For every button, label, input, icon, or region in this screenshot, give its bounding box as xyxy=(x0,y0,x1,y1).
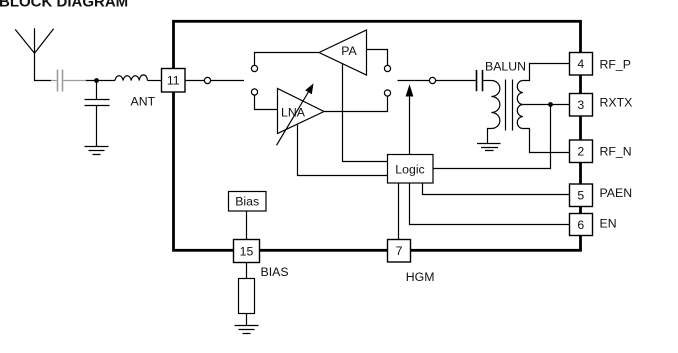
svg-text:Bias: Bias xyxy=(235,195,259,209)
port circle on balun line xyxy=(429,77,435,83)
resistor R1 xyxy=(239,279,255,314)
op-amp PA (power amplifier, points left) xyxy=(319,30,367,75)
pin 4 RF_P xyxy=(570,53,593,76)
Bias block U3 xyxy=(229,192,267,212)
transformer T1 secondary winding xyxy=(517,81,523,129)
wire Logic to pin 6 EN xyxy=(410,183,570,225)
svg-text:PAEN: PAEN xyxy=(600,186,633,200)
IC outline frame xyxy=(174,21,581,250)
wire pin 11 to switch pole xyxy=(185,80,244,82)
svg-text:PA: PA xyxy=(341,44,357,58)
switch SW1 throw contact (RX) xyxy=(251,89,257,95)
wire LNA bottom to Logic xyxy=(298,125,388,176)
ground under C2 xyxy=(85,147,109,155)
node A junction dot xyxy=(94,78,99,83)
port circle on ANT line xyxy=(204,77,210,83)
switch SW1 throw contact (TX) xyxy=(251,65,257,71)
capacitor C1 (series, gray) xyxy=(58,70,63,92)
wire SW1 RX contact to LNA input xyxy=(255,95,278,109)
wire SW1 TX contact to PA output xyxy=(255,53,320,66)
transformer T1 primary winding xyxy=(491,81,500,129)
svg-text:6: 6 xyxy=(577,218,584,232)
wire T1 center tap to pin 3 xyxy=(523,104,570,106)
wire Bias to pin 15 xyxy=(246,211,248,239)
svg-text:HGM: HGM xyxy=(406,270,435,284)
wire switch SW2 pole to balun capacitor xyxy=(398,80,476,82)
svg-text:Logic: Logic xyxy=(395,163,424,177)
pin 2 RF_N xyxy=(570,140,593,163)
capacitor C3 (balun series) xyxy=(477,70,483,91)
pin 7 HGM xyxy=(388,240,411,263)
wire R1 to ground xyxy=(246,314,248,326)
pin 6 EN xyxy=(570,214,593,236)
svg-text:RXTX: RXTX xyxy=(600,95,633,109)
wire C3 to T1 primary xyxy=(483,80,491,82)
wire PA input to switch SW2 TX contact xyxy=(367,50,388,66)
wire T1 secondary top to pin 4 xyxy=(523,64,570,81)
pin 3 RXTX xyxy=(570,94,593,117)
ground under R1 xyxy=(235,326,259,334)
Logic block U2 xyxy=(388,155,434,184)
svg-text:3: 3 xyxy=(577,98,584,112)
wire T1 secondary bottom to pin 2 xyxy=(523,129,570,153)
arrow Logic to switch control xyxy=(406,84,414,154)
svg-text:5: 5 xyxy=(577,189,584,203)
svg-text:11: 11 xyxy=(167,74,180,88)
antenna xyxy=(15,28,53,53)
svg-text:2: 2 xyxy=(577,145,584,159)
wire L1 to pin 11 xyxy=(148,80,162,82)
svg-text:RF_N: RF_N xyxy=(600,144,632,158)
pin 15 BIAS xyxy=(234,240,260,263)
wire T1 primary bottom to ground xyxy=(488,129,492,144)
svg-text:4: 4 xyxy=(577,57,584,71)
svg-text:EN: EN xyxy=(600,216,617,230)
wire antenna feed to C1 xyxy=(35,53,52,81)
pin 11 xyxy=(162,69,186,93)
svg-text:RF_P: RF_P xyxy=(600,58,631,72)
wire Logic to RXTX node xyxy=(433,105,551,169)
wire PA bottom to Logic xyxy=(343,63,388,161)
wire node A to L1 xyxy=(86,80,115,82)
op-amp LNA (low noise amplifier, points right) xyxy=(278,89,325,134)
wire LNA output to switch SW2 RX contact xyxy=(324,96,388,111)
pin 5 PAEN xyxy=(570,184,593,207)
svg-text:ANT: ANT xyxy=(131,94,156,108)
transformer T1 core xyxy=(506,80,513,131)
svg-text:BIAS: BIAS xyxy=(261,265,289,279)
RXTX node junction dot xyxy=(548,102,553,107)
LNA variable-gain arrow xyxy=(277,83,314,145)
switch SW2 TX contact xyxy=(384,65,390,71)
inductor L1 xyxy=(115,75,148,81)
wire gray from C1 to node A xyxy=(63,80,86,82)
svg-text:15: 15 xyxy=(240,244,254,258)
svg-text:BLOCK DIAGRAM: BLOCK DIAGRAM xyxy=(0,0,128,11)
ground under balun xyxy=(477,144,501,151)
svg-text:7: 7 xyxy=(396,244,403,258)
switch SW2 RX contact xyxy=(384,90,390,96)
wire Logic to pin 7 xyxy=(398,183,400,239)
svg-text:BALUN: BALUN xyxy=(485,59,526,73)
capacitor C2 (shunt to ground) xyxy=(85,81,110,147)
wire pin 15 to resistor R1 xyxy=(246,263,248,279)
wire gray stub into C1 xyxy=(51,80,57,82)
wire Logic to pin 5 PAEN xyxy=(423,183,570,195)
